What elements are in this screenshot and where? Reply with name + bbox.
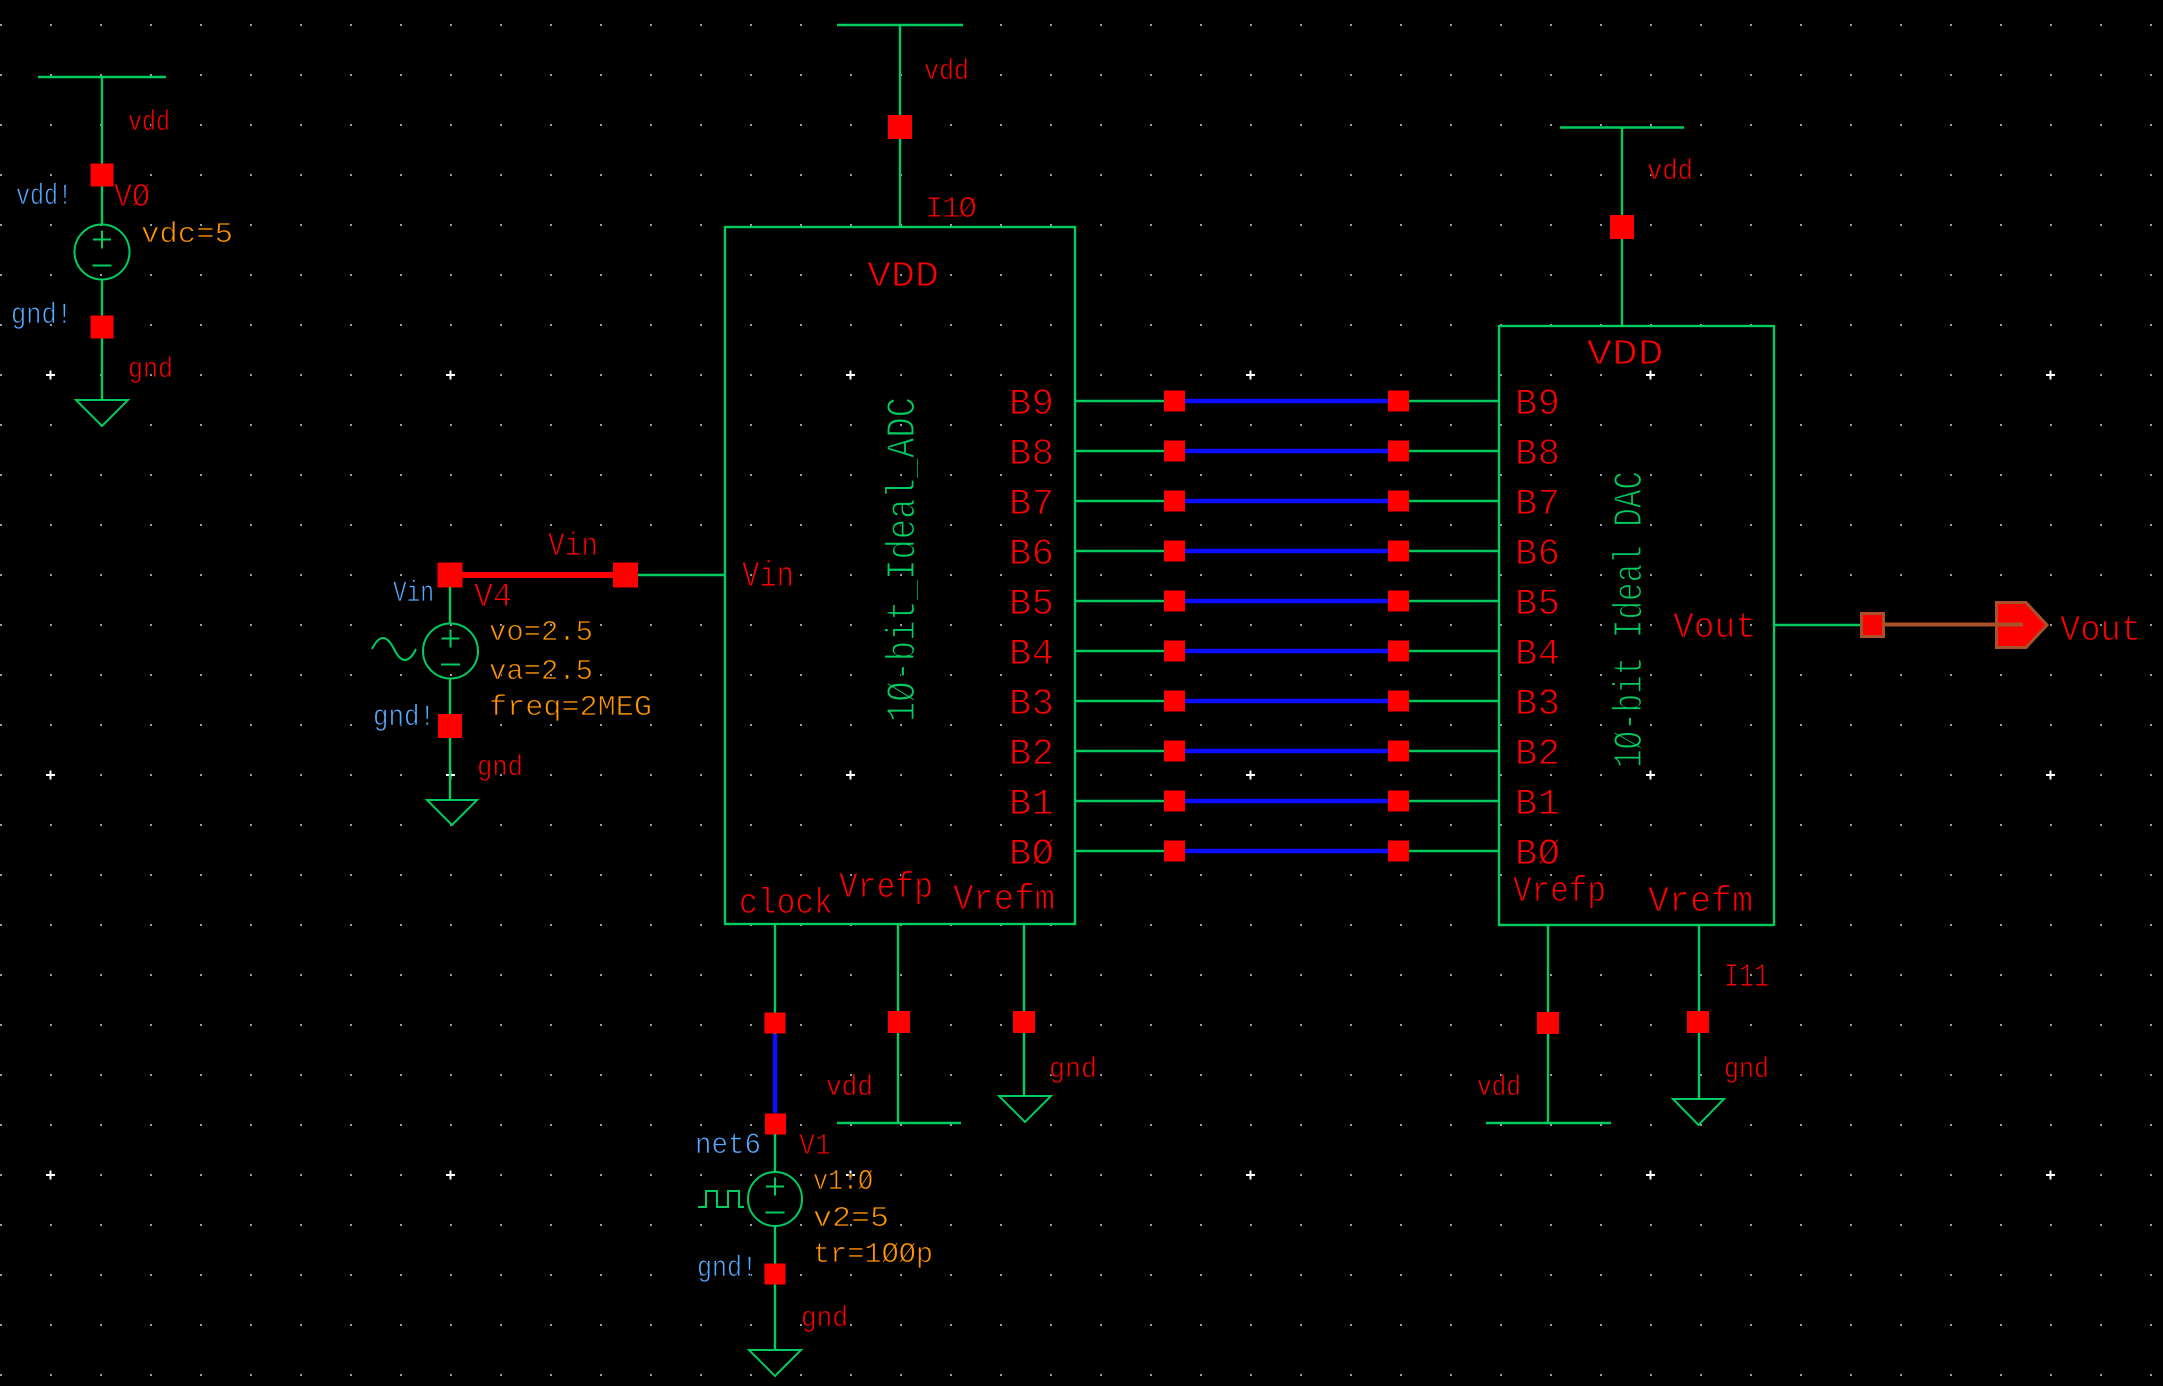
pin square B8 right <box>1388 441 1409 462</box>
wide wire bus bit B9 (blue) <box>1185 399 1388 404</box>
wire Vin port to ADC Vin pin <box>638 574 725 576</box>
ADC pin labels B9-B0 <box>1009 384 1054 876</box>
pin square B1 left <box>1164 791 1185 812</box>
wire DAC B3 stub <box>1409 700 1499 702</box>
pin square B5 left <box>1164 591 1185 612</box>
svg-text:Vout: Vout <box>2060 610 2141 651</box>
sine symbol of V4 <box>372 638 416 660</box>
svg-text:B4: B4 <box>1009 634 1054 676</box>
ground symbol at DAC Vrefm <box>1673 1099 1724 1125</box>
svg-text:B7: B7 <box>1009 484 1054 526</box>
svg-text:V4: V4 <box>474 579 512 617</box>
wide wire bus bit B3 (blue) <box>1185 699 1388 704</box>
svg-text:B6: B6 <box>1009 534 1054 576</box>
pin square B9 right <box>1388 391 1409 412</box>
svg-text:B3: B3 <box>1009 684 1054 726</box>
pulse symbol of V1 <box>698 1191 744 1207</box>
wire DAC Vout pin to port <box>1774 624 1861 626</box>
wire ADC Vrefp pin to vdd <box>897 924 899 1123</box>
pin square B6 left <box>1164 541 1185 562</box>
svg-text:B6: B6 <box>1515 534 1560 576</box>
wire DAC B8 stub <box>1409 450 1499 452</box>
ground symbol of V1 <box>749 1350 801 1376</box>
wire ADC B0 stub <box>1075 850 1164 852</box>
pin square B4 right <box>1388 641 1409 662</box>
wire ADC B1 stub <box>1075 800 1164 802</box>
wire vdd rail to DAC VDD pin <box>1621 128 1623 327</box>
output port arrow Vout <box>1997 603 2048 648</box>
svg-text:I1Ø: I1Ø <box>925 192 977 227</box>
svg-text:Vin: Vin <box>393 577 434 611</box>
pin square B3 left <box>1164 691 1185 712</box>
pin square net6 bottom <box>765 1114 786 1135</box>
svg-text:Vout: Vout <box>1673 607 1756 648</box>
pin square ADC Vrefp <box>888 1011 910 1033</box>
ground symbol of V0 <box>76 400 128 426</box>
svg-text:gnd!: gnd! <box>697 1252 757 1286</box>
wire net6 to V1 plus <box>774 1134 776 1172</box>
pin square Vout port <box>1862 614 1884 637</box>
svg-text:gnd!: gnd! <box>11 299 72 333</box>
svg-text:Vrefm: Vrefm <box>953 879 1055 920</box>
svg-text:B2: B2 <box>1009 734 1054 776</box>
wide wire bus bit B7 (blue) <box>1185 499 1388 504</box>
wire DAC B9 stub <box>1409 400 1499 402</box>
pin square V4 minus <box>438 714 462 738</box>
svg-text:freq=2MEG: freq=2MEG <box>489 691 652 724</box>
svg-text:B5: B5 <box>1009 584 1054 626</box>
svg-text:B3: B3 <box>1515 684 1560 726</box>
svg-text:vo=2.5: vo=2.5 <box>489 616 593 649</box>
wire ADC B4 stub <box>1075 650 1164 652</box>
svg-text:vdd: vdd <box>128 106 170 139</box>
svg-text:gnd: gnd <box>1724 1053 1769 1086</box>
power symbol vdd rail above DAC I11 <box>1560 126 1684 128</box>
wire ADC B5 stub <box>1075 600 1164 602</box>
pin square Vin port <box>613 563 638 588</box>
svg-text:v2=5: v2=5 <box>813 1202 889 1235</box>
svg-text:vdd!: vdd! <box>16 180 72 214</box>
power symbol vdd rail of V0 <box>38 76 166 78</box>
wire DAC Vrefm pin to ground <box>1698 925 1700 1099</box>
wire ADC B6 stub <box>1075 550 1164 552</box>
pin square DAC Vrefm <box>1687 1011 1709 1033</box>
svg-text:gnd: gnd <box>801 1302 848 1335</box>
wire ADC clock pin down <box>774 924 776 1034</box>
svg-text:vdd: vdd <box>1477 1071 1521 1104</box>
svg-text:vdd: vdd <box>1647 155 1693 188</box>
svg-text:Vrefm: Vrefm <box>1648 881 1753 922</box>
wire DAC B1 stub <box>1409 800 1499 802</box>
svg-text:VØ: VØ <box>114 179 150 216</box>
svg-text:Vin: Vin <box>742 556 794 597</box>
svg-text:vdc=5: vdc=5 <box>141 218 233 251</box>
svg-text:gnd: gnd <box>1049 1053 1097 1086</box>
pin square clock net top <box>765 1013 786 1034</box>
pin square V0 plus terminal <box>91 164 114 187</box>
svg-text:I11: I11 <box>1724 959 1769 996</box>
wide wire bus bit B6 (blue) <box>1185 549 1388 554</box>
pin square B7 right <box>1388 491 1409 512</box>
DAC block I11 outline <box>1499 326 1774 925</box>
wire ADC Vrefm pin to ground <box>1023 924 1025 1096</box>
wide wire bus bit B5 (blue) <box>1185 599 1388 604</box>
voltage source V1 (vpulse) <box>748 1172 802 1226</box>
pin square B2 left <box>1164 741 1185 762</box>
wide wire bus bit B0 (blue) <box>1185 849 1388 854</box>
pin square ADC Vrefm <box>1013 1011 1035 1033</box>
wide wire net6 (blue) <box>773 1034 778 1113</box>
wire DAC B7 stub <box>1409 500 1499 502</box>
svg-text:B4: B4 <box>1515 634 1560 676</box>
svg-text:VDD: VDD <box>1587 334 1664 375</box>
power symbol vdd rail above ADC I10 <box>837 24 963 26</box>
wire DAC B2 stub <box>1409 750 1499 752</box>
wide wire Vin from V4 to port pin <box>450 572 626 578</box>
wire vdd rail to ADC VDD pin <box>899 25 901 227</box>
pin square DAC VDD <box>1610 215 1634 239</box>
svg-text:VDD: VDD <box>867 256 939 297</box>
wire ADC B3 stub <box>1075 700 1164 702</box>
wire ADC B7 stub <box>1075 500 1164 502</box>
pin square B2 right <box>1388 741 1409 762</box>
wire DAC B5 stub <box>1409 600 1499 602</box>
pin square B4 left <box>1164 641 1185 662</box>
wire DAC B6 stub <box>1409 550 1499 552</box>
wire ADC B9 stub <box>1075 400 1164 402</box>
svg-text:B8: B8 <box>1009 434 1054 476</box>
wire DAC B0 stub <box>1409 850 1499 852</box>
pin square B6 right <box>1388 541 1409 562</box>
svg-text:1Ø-bit Ideal DAC: 1Ø-bit Ideal DAC <box>1608 471 1655 768</box>
wire V4 plus to source circle <box>449 587 451 624</box>
svg-text:B9: B9 <box>1515 384 1560 426</box>
wire ADC B2 stub <box>1075 750 1164 752</box>
svg-text:B7: B7 <box>1515 484 1560 526</box>
pin square B1 right <box>1388 791 1409 812</box>
wire V1 minus to ground <box>774 1226 776 1350</box>
svg-text:va=2.5: va=2.5 <box>489 655 593 688</box>
pin square B0 left <box>1164 841 1185 862</box>
pin square ADC VDD <box>888 115 912 139</box>
pin square V0 minus terminal <box>91 316 114 339</box>
voltage source V4 (vsin) <box>423 624 478 679</box>
wide wire Vout to port arrow <box>1873 623 2023 627</box>
pin square B9 left <box>1164 391 1185 412</box>
wire vdd rail to V0 plus <box>101 77 103 225</box>
wire V4 minus to ground <box>449 679 451 801</box>
svg-text:gnd: gnd <box>128 353 173 386</box>
pin square B0 right <box>1388 841 1409 862</box>
wide wire bus bit B8 (blue) <box>1185 449 1388 454</box>
wide wire bus bit B4 (blue) <box>1185 649 1388 654</box>
wide wire bus bit B1 (blue) <box>1185 799 1388 804</box>
power symbol vdd at ADC Vrefp <box>837 1122 961 1124</box>
svg-text:net6: net6 <box>695 1129 761 1163</box>
power symbol vdd at DAC Vrefp <box>1486 1122 1611 1124</box>
svg-text:Vin: Vin <box>548 528 598 565</box>
wire DAC Vrefp pin to vdd <box>1547 925 1549 1123</box>
svg-text:vdd: vdd <box>924 55 969 88</box>
svg-text:vdd: vdd <box>826 1071 873 1104</box>
ADC block I10 outline <box>725 227 1075 924</box>
ground symbol at ADC Vrefm <box>999 1096 1051 1122</box>
svg-text:B1: B1 <box>1009 784 1054 826</box>
svg-text:V1: V1 <box>799 1129 831 1164</box>
ground symbol of V4 <box>427 800 477 825</box>
svg-text:B1: B1 <box>1515 784 1560 826</box>
svg-text:B8: B8 <box>1515 434 1560 476</box>
svg-text:B2: B2 <box>1515 734 1560 776</box>
DAC pin labels B9-B0 <box>1515 384 1560 876</box>
pin square DAC Vrefp <box>1537 1012 1559 1034</box>
wide wire bus bit B2 (blue) <box>1185 749 1388 754</box>
svg-text:Vrefp: Vrefp <box>839 867 933 908</box>
svg-text:gnd: gnd <box>477 751 523 784</box>
wire DAC B4 stub <box>1409 650 1499 652</box>
pin square V4 plus <box>438 563 463 588</box>
svg-text:gnd!: gnd! <box>373 701 435 735</box>
svg-text:v1:Ø: v1:Ø <box>813 1165 873 1198</box>
svg-text:BØ: BØ <box>1515 834 1560 876</box>
pin square B5 right <box>1388 591 1409 612</box>
wire ADC B8 stub <box>1075 450 1164 452</box>
wire V0 minus to ground <box>101 280 103 401</box>
svg-text:Vrefp: Vrefp <box>1513 871 1606 912</box>
voltage source V0 (vdc) <box>75 225 130 280</box>
svg-text:tr=1ØØp: tr=1ØØp <box>813 1238 933 1271</box>
pin square B3 right <box>1388 691 1409 712</box>
pin square B8 left <box>1164 441 1185 462</box>
pin square B7 left <box>1164 491 1185 512</box>
svg-text:clock: clock <box>739 883 833 924</box>
svg-text:B5: B5 <box>1515 584 1560 626</box>
svg-text:B9: B9 <box>1009 384 1054 426</box>
pin square V1 minus <box>765 1264 786 1285</box>
svg-text:1Ø-bit_Ideal_ADC: 1Ø-bit_Ideal_ADC <box>881 397 927 722</box>
svg-text:BØ: BØ <box>1009 834 1054 876</box>
